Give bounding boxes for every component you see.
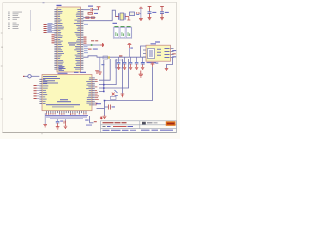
cap box outline around cap D0	[115, 60, 123, 68]
cap circuit CB: power flag	[160, 6, 164, 11]
U2 left red label stack	[34, 85, 37, 99]
border zone letter	[1, 47, 2, 48]
small ferrite circuit left of caps: body	[130, 12, 135, 16]
resistor R1 label	[94, 12, 98, 15]
ground hanging from rail	[98, 57, 102, 74]
power flag for long wire	[151, 63, 155, 67]
logo text	[167, 123, 175, 125]
U2 left short wires	[37, 86, 40, 99]
bottom cap blue mark	[112, 106, 115, 109]
bus transistor cluster blue	[115, 90, 118, 96]
U3 right pins	[171, 49, 174, 58]
down power flag red	[121, 94, 125, 97]
ferrite ground	[139, 19, 143, 21]
U2 bottom labels blue	[45, 115, 88, 119]
cap CA plates	[148, 12, 152, 14]
U1 left wires to labels	[47, 25, 55, 33]
title row2 text	[103, 125, 134, 128]
title block frame	[101, 121, 177, 133]
designator U3 label	[151, 42, 161, 45]
bus wire row 2	[99, 59, 116, 85]
title text row1	[103, 122, 127, 123]
below U2 cap cluster 3	[64, 119, 68, 129]
cap D3	[135, 57, 139, 69]
U1 pins and pin names	[54, 9, 83, 69]
designator U2 label	[74, 72, 86, 73]
resistor R1	[88, 13, 93, 15]
power flag above rail	[128, 44, 132, 49]
jumper cell 1	[114, 28, 119, 38]
bus wire row 1	[99, 59, 110, 80]
bottom cap plates	[109, 105, 111, 110]
IC U3 body	[146, 45, 171, 61]
title row3 text	[103, 129, 137, 132]
jumper cell 3	[126, 28, 131, 38]
below U2 ground cluster 1	[43, 113, 47, 127]
U2 left pins and names	[39, 79, 48, 104]
bottom junction dot	[104, 100, 106, 102]
sheet border frame	[3, 3, 178, 133]
power flag above U2 right	[95, 71, 99, 74]
U1 bottom inner text	[59, 66, 66, 70]
ground wire label	[101, 64, 104, 65]
designator U1 label	[57, 5, 62, 6]
title block right icon	[142, 122, 158, 125]
ferrite wire	[140, 13, 141, 15]
cap D4	[141, 57, 145, 69]
crystal Y1 body	[120, 13, 124, 20]
cap D2	[129, 57, 133, 69]
jumper top label	[113, 23, 118, 24]
U1 left wire net names	[48, 23, 53, 32]
ferrite wire vertical	[140, 8, 142, 18]
bus wire drop with flag	[121, 59, 123, 94]
U3 left pins	[143, 50, 146, 57]
logo orange box	[166, 121, 176, 126]
rail red label	[119, 55, 122, 56]
below U2 cap cluster 2	[56, 119, 63, 129]
mid lower labels	[88, 49, 98, 50]
power flag stem to rail	[128, 48, 130, 57]
mid wire labels red	[91, 40, 98, 41]
wire U1 pin to C1	[83, 9, 90, 11]
op IC U1 body	[57, 7, 81, 72]
power flag P1	[97, 7, 101, 10]
capacitor C1 label	[88, 6, 93, 7]
bottom ground	[103, 116, 107, 119]
bus cluster box	[111, 96, 117, 99]
U1 right red stubs	[84, 37, 87, 44]
power flag label	[155, 62, 158, 65]
net table separator line	[30, 10, 32, 31]
ferrite bead marks	[136, 12, 140, 13]
bus junction dots	[103, 84, 105, 92]
long VCC return wire	[105, 67, 153, 101]
long wire U1 to crystal	[83, 10, 117, 21]
mid wire to power	[83, 44, 100, 46]
U3 bottom-left cap marks	[142, 63, 145, 64]
wire with series resistors	[83, 17, 95, 19]
net table text group 2	[8, 23, 19, 29]
bottom vertical wire	[104, 101, 106, 116]
crystal Y1 left plate	[118, 13, 120, 20]
cap CA label	[152, 11, 156, 14]
jumper cell 2	[120, 28, 125, 38]
U1 right wire label dashes	[84, 24, 88, 53]
U2 top-left long pin names	[43, 76, 60, 83]
jumper green labels	[114, 26, 130, 36]
U3 crystal subsymbol	[148, 49, 155, 59]
jumper block J1 outer	[113, 27, 132, 39]
cap circuit CA: power flag	[148, 6, 152, 11]
net table text group 1	[8, 12, 22, 20]
mid power flag red	[100, 43, 104, 47]
rail net label box	[103, 56, 110, 59]
cap CB label	[165, 11, 169, 14]
crystal pins red	[116, 16, 129, 18]
cap CB plates	[160, 12, 164, 14]
VCC rail wire to U3	[83, 56, 146, 57]
U3 right pin ground	[165, 69, 168, 71]
mid wire junction dot	[91, 44, 93, 46]
U3 right pin L wire	[167, 58, 173, 69]
cap CA ground	[148, 13, 152, 19]
IC U2 body	[42, 75, 92, 111]
U1 part number text	[68, 43, 76, 46]
wire C1 to power	[93, 9, 99, 11]
U3 below text	[147, 61, 157, 64]
ferrite power flag	[139, 7, 143, 8]
bottom cap circuit: pin wire	[97, 108, 105, 110]
power flag blue label	[130, 47, 133, 50]
bottom cap wire stub	[105, 106, 109, 108]
U1 left wire labels red stack	[44, 24, 47, 33]
U3 left feed wire	[141, 46, 147, 57]
U1 bottom text	[58, 72, 68, 75]
cap D1	[123, 57, 127, 69]
ferrite bead blue dash	[136, 13, 139, 16]
bus vertical collector wire	[99, 60, 104, 92]
U2 left wire with connector circle	[23, 75, 39, 78]
top mark small	[43, 1, 45, 4]
decoupling caps row: cap D0	[117, 57, 121, 69]
cap CB ground	[160, 13, 164, 19]
U2 bottom pins and component row	[46, 111, 87, 115]
capacitor C1	[91, 8, 93, 11]
crystal right ground mark	[127, 17, 130, 21]
U3 inner text	[157, 48, 170, 58]
big ground arrow right	[139, 71, 143, 78]
bus transistor cluster red X	[112, 93, 115, 96]
U1 left red stubs lower	[52, 34, 55, 43]
title right row text	[141, 129, 173, 132]
crystal Y1 right plate	[124, 13, 126, 20]
U3 right pin labels	[172, 50, 176, 57]
bus wire row 3	[99, 59, 129, 88]
bottom blue label	[96, 102, 101, 105]
border tick marks	[1, 33, 42, 134]
title block star	[100, 116, 102, 119]
U2 right pins, names and red stubs	[86, 78, 99, 106]
below U2 right blue wire L	[85, 116, 97, 126]
U2 inner title text	[46, 99, 80, 107]
